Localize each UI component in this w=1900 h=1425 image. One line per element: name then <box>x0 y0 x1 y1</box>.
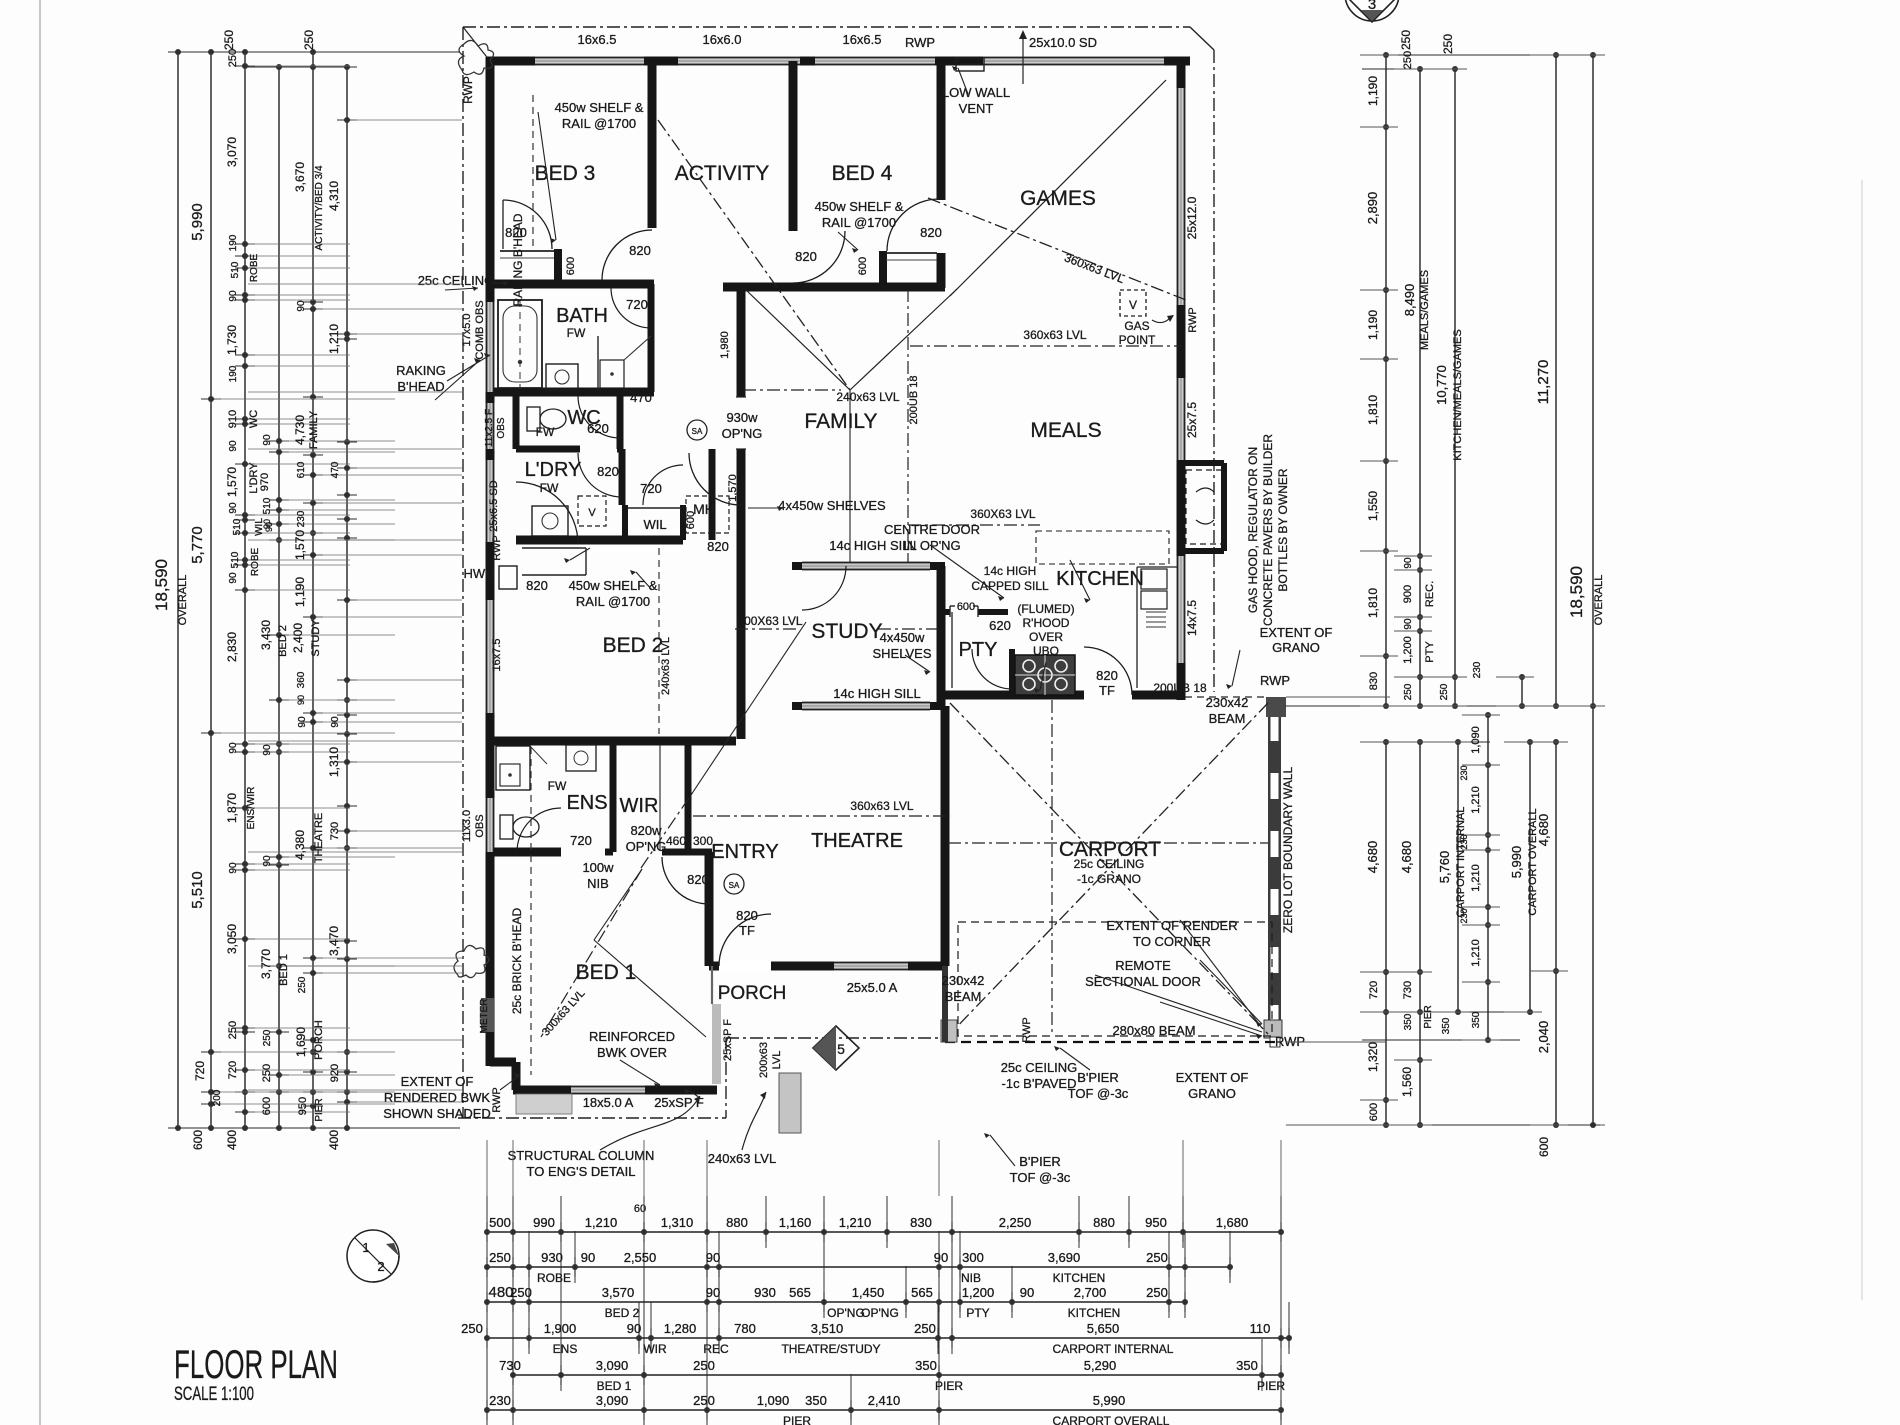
svg-text:1,730: 1,730 <box>225 325 239 355</box>
bed2 robe recess <box>522 547 586 549</box>
svg-text:350: 350 <box>1403 1013 1414 1030</box>
door arc bed2 <box>516 482 578 544</box>
svg-text:230: 230 <box>489 1393 511 1408</box>
svg-text:250: 250 <box>510 1285 532 1300</box>
entry diagonal line <box>693 622 806 792</box>
svg-text:OVERALL: OVERALL <box>1593 575 1605 626</box>
svg-text:GRANO: GRANO <box>1272 640 1320 655</box>
door arc kitchen 820TF <box>1084 647 1132 695</box>
svg-text:3,690: 3,690 <box>1048 1250 1081 1265</box>
door arc bed4 <box>887 199 939 251</box>
svg-text:565: 565 <box>911 1285 933 1300</box>
svg-text:400: 400 <box>327 1130 341 1150</box>
gas point V box <box>1120 290 1146 316</box>
svg-text:350: 350 <box>805 1393 827 1408</box>
wil closet <box>622 505 628 540</box>
svg-text:TOF @-3c: TOF @-3c <box>1010 1170 1071 1185</box>
svg-text:1,160: 1,160 <box>779 1215 812 1230</box>
svg-text:600: 600 <box>565 257 577 275</box>
ens shower <box>496 746 530 790</box>
svg-text:820: 820 <box>1096 668 1118 683</box>
svg-text:3,050: 3,050 <box>225 924 239 954</box>
bed2 dashed rake <box>658 548 660 734</box>
svg-text:90: 90 <box>706 1285 720 1300</box>
porch slab edge <box>726 1037 945 1039</box>
detail marker 5 porch <box>813 1026 859 1070</box>
svg-text:250: 250 <box>302 30 316 50</box>
svg-text:1,310: 1,310 <box>661 1215 694 1230</box>
door arc ldry <box>578 453 622 497</box>
svg-text:STUDY: STUDY <box>811 620 882 643</box>
svg-text:BED 2: BED 2 <box>603 634 664 657</box>
svg-text:METER: METER <box>479 999 490 1034</box>
svg-text:90: 90 <box>297 716 308 728</box>
svg-text:PORCH: PORCH <box>313 1020 325 1060</box>
detail marker 3 top <box>1345 0 1399 21</box>
RWP box bottom right carport <box>1264 1020 1282 1038</box>
svg-text:EXTENT OF: EXTENT OF <box>1176 1070 1249 1085</box>
games diagonal solid <box>950 80 1166 296</box>
eaves corner diagonal top-left <box>463 27 490 61</box>
svg-text:WIR: WIR <box>643 1342 667 1356</box>
hall wall east of wil <box>709 449 716 540</box>
svg-text:90: 90 <box>262 855 273 867</box>
svg-text:25xSP F: 25xSP F <box>654 1095 704 1110</box>
svg-text:HWU: HWU <box>463 566 494 581</box>
svg-text:ZERO LOT BOUNDARY WALL: ZERO LOT BOUNDARY WALL <box>1281 767 1295 934</box>
svg-text:SHOWN SHADED: SHOWN SHADED <box>383 1106 491 1121</box>
svg-text:14x7.5: 14x7.5 <box>1185 600 1199 636</box>
svg-text:CARPORT OVERALL: CARPORT OVERALL <box>1053 1414 1170 1425</box>
svg-text:2,700: 2,700 <box>1074 1285 1107 1300</box>
rendered bwk grey strip <box>516 1094 572 1114</box>
low wall vent box <box>956 58 984 71</box>
svg-text:3: 3 <box>1368 0 1376 13</box>
svg-text:OVERALL: OVERALL <box>177 575 189 626</box>
svg-text:730: 730 <box>1402 981 1414 999</box>
svg-text:TF: TF <box>739 923 755 938</box>
svg-text:PTY: PTY <box>1424 641 1436 663</box>
svg-text:3,090: 3,090 <box>596 1358 629 1373</box>
door arc hall-bed3wall <box>602 230 652 280</box>
ens nib <box>605 849 613 856</box>
svg-text:MEALS/GAMES: MEALS/GAMES <box>1419 270 1431 350</box>
window 16x7.5 bed2 <box>486 600 495 713</box>
svg-text:WIR: WIR <box>620 795 659 817</box>
study top sill window <box>792 562 802 570</box>
svg-text:FW: FW <box>540 481 559 495</box>
svg-text:-1c GRANO: -1c GRANO <box>1077 872 1141 886</box>
svg-text:SECTIONAL DOOR: SECTIONAL DOOR <box>1085 974 1201 989</box>
svg-text:THEATRE/STUDY: THEATRE/STUDY <box>781 1342 880 1356</box>
svg-text:18x5.0 A: 18x5.0 A <box>583 1095 634 1110</box>
svg-text:250: 250 <box>222 30 236 50</box>
svg-text:RAKING: RAKING <box>396 363 446 378</box>
ens sink <box>566 745 596 771</box>
door arc entry <box>662 857 709 904</box>
svg-text:90: 90 <box>262 744 273 756</box>
svg-text:25xSP F: 25xSP F <box>722 1019 734 1061</box>
svg-text:820: 820 <box>597 464 619 479</box>
door arc bed3 entry <box>502 200 504 249</box>
svg-text:RWP: RWP <box>1187 307 1199 332</box>
svg-text:250: 250 <box>227 49 239 67</box>
svg-text:90: 90 <box>627 1321 641 1336</box>
svg-text:1,190: 1,190 <box>293 577 307 607</box>
svg-text:90: 90 <box>228 742 239 754</box>
svg-text:PIER: PIER <box>314 1098 325 1121</box>
wall wir right x688 <box>685 741 692 855</box>
meals top dash-dot 360x63 <box>910 345 1181 347</box>
svg-text:PTY: PTY <box>966 1306 989 1320</box>
svg-text:GAS HOOD, REGULATOR ON: GAS HOOD, REGULATOR ON <box>1246 447 1260 613</box>
svg-text:RWP: RWP <box>1275 1034 1305 1049</box>
svg-text:2,250: 2,250 <box>999 1215 1032 1230</box>
svg-text:TF: TF <box>1099 683 1115 698</box>
svg-text:THEATRE: THEATRE <box>811 830 903 852</box>
svg-text:18,590: 18,590 <box>152 559 171 611</box>
svg-text:25x6.5 SD: 25x6.5 SD <box>488 480 500 531</box>
svg-text:PIER: PIER <box>1257 1379 1285 1393</box>
carport X diagonal 1 <box>950 703 1268 1034</box>
svg-text:1,690: 1,690 <box>294 1027 308 1057</box>
svg-text:1,210: 1,210 <box>585 1215 618 1230</box>
svg-text:470: 470 <box>630 390 652 405</box>
SA circle hall <box>687 420 707 440</box>
shrub squiggle top left <box>458 40 493 74</box>
window 16x6.0 top-2 <box>678 57 800 66</box>
svg-text:BEAM: BEAM <box>945 989 982 1004</box>
window 16x6.5 top-1 <box>535 57 644 66</box>
svg-text:820: 820 <box>795 249 817 264</box>
svg-text:BED 1: BED 1 <box>597 1379 632 1393</box>
svg-text:OP'NG: OP'NG <box>827 1306 865 1320</box>
door arc pty <box>972 649 1012 689</box>
230x42 beam left marker <box>942 966 948 1042</box>
svg-text:450w SHELF &: 450w SHELF & <box>569 578 658 593</box>
svg-text:190: 190 <box>228 234 239 251</box>
bed1 solid diagonals <box>594 940 706 1037</box>
bath vanity <box>546 364 578 390</box>
svg-text:1,190: 1,190 <box>1366 310 1380 340</box>
toilet wc <box>527 407 540 431</box>
svg-text:1,210: 1,210 <box>1470 786 1482 814</box>
svg-text:950: 950 <box>297 1097 309 1115</box>
svg-text:600: 600 <box>1368 1103 1380 1121</box>
svg-text:BWK OVER: BWK OVER <box>597 1045 667 1060</box>
window 18x5.0 A bed1 <box>571 1086 645 1095</box>
svg-text:3,510: 3,510 <box>811 1321 844 1336</box>
svg-text:720: 720 <box>570 833 592 848</box>
svg-text:240x63 LVL: 240x63 LVL <box>836 390 899 404</box>
svg-text:V: V <box>588 507 596 519</box>
svg-text:OVER: OVER <box>1029 630 1063 644</box>
svg-text:25c CEILING: 25c CEILING <box>1001 1060 1078 1075</box>
svg-text:600: 600 <box>857 257 869 275</box>
svg-text:STRUCTURAL COLUMN: STRUCTURAL COLUMN <box>508 1148 655 1163</box>
svg-text:90: 90 <box>581 1250 595 1265</box>
beam 200UB18 vertical <box>907 289 909 562</box>
svg-text:360X63 LVL: 360X63 LVL <box>970 507 1035 521</box>
carport bpier left grey <box>941 1020 957 1042</box>
meals dash-dot 360X63 y525 <box>908 524 1040 526</box>
svg-text:SCALE 1:100: SCALE 1:100 <box>174 1384 254 1405</box>
svg-text:3,430: 3,430 <box>259 620 273 650</box>
svg-text:200: 200 <box>212 1089 223 1106</box>
svg-text:190: 190 <box>228 365 239 382</box>
svg-text:(FLUMED): (FLUMED) <box>1017 602 1074 616</box>
svg-text:730: 730 <box>329 822 341 840</box>
svg-text:600: 600 <box>685 511 697 529</box>
theatre dash-dot 360x63 y816 <box>693 815 948 817</box>
window 25x6.5 SD ldry <box>486 460 495 542</box>
left block comb extension lines <box>215 398 395 400</box>
kitchen bench outline <box>951 612 953 688</box>
svg-text:300X63 LVL: 300X63 LVL <box>737 614 802 628</box>
structural column leader <box>600 1096 700 1150</box>
svg-text:25c BRICK B'HEAD: 25c BRICK B'HEAD <box>510 908 524 1015</box>
svg-text:BATH: BATH <box>556 305 608 327</box>
svg-text:230: 230 <box>1472 661 1483 678</box>
svg-text:90: 90 <box>706 1250 720 1265</box>
svg-text:1,210: 1,210 <box>1470 864 1482 892</box>
bed4 robe stub <box>879 251 887 287</box>
svg-text:CAPPED SILL: CAPPED SILL <box>971 579 1049 593</box>
svg-text:1,210: 1,210 <box>327 324 341 354</box>
wall activity-bed4 <box>789 61 798 231</box>
svg-text:5,990: 5,990 <box>189 203 206 241</box>
svg-text:4,380: 4,380 <box>293 830 307 860</box>
svg-text:4x450w: 4x450w <box>880 630 925 645</box>
eaves outline top-right diagonal <box>1190 27 1214 50</box>
eaves outline top <box>463 26 1190 28</box>
meter box <box>481 998 494 1032</box>
svg-text:REC.: REC. <box>1424 581 1436 607</box>
svg-text:930: 930 <box>541 1250 563 1265</box>
svg-text:OBS: OBS <box>496 417 507 438</box>
svg-text:250: 250 <box>1146 1250 1168 1265</box>
svg-text:L'DRY: L'DRY <box>525 459 582 481</box>
svg-text:4,730: 4,730 <box>293 415 307 445</box>
svg-text:970: 970 <box>259 473 271 491</box>
svg-text:TOF @-3c: TOF @-3c <box>1068 1086 1129 1101</box>
svg-text:4,680: 4,680 <box>1399 841 1414 874</box>
wall left exterior <box>486 57 495 1066</box>
svg-text:250: 250 <box>914 1321 936 1336</box>
wall bed3-activity <box>648 61 657 228</box>
svg-text:BED 3: BED 3 <box>535 162 596 185</box>
svg-text:830: 830 <box>910 1215 932 1230</box>
svg-text:240x63 LVL: 240x63 LVL <box>660 637 672 695</box>
svg-text:4,680: 4,680 <box>1536 814 1551 847</box>
shrub squiggle left meter <box>454 945 489 977</box>
svg-text:820: 820 <box>736 908 758 923</box>
vent arrow 25x10 SD <box>1022 34 1024 84</box>
svg-text:R'HOOD: R'HOOD <box>1023 616 1070 630</box>
svg-text:PIER: PIER <box>935 1379 963 1393</box>
svg-text:V: V <box>1129 298 1137 312</box>
svg-text:ROBE: ROBE <box>250 548 261 577</box>
V box ldry <box>578 496 606 526</box>
svg-text:720: 720 <box>626 297 648 312</box>
svg-text:820: 820 <box>526 578 548 593</box>
svg-text:ENS: ENS <box>566 792 607 814</box>
svg-text:BED 2: BED 2 <box>277 625 289 657</box>
svg-text:90: 90 <box>228 290 239 302</box>
svg-text:720: 720 <box>193 1061 207 1081</box>
svg-text:1,280: 1,280 <box>664 1321 697 1336</box>
kitchen sink <box>1141 569 1167 589</box>
svg-text:REMOTE: REMOTE <box>1115 958 1171 973</box>
svg-text:CONCRETE PAVERS BY BUILDER: CONCRETE PAVERS BY BUILDER <box>1261 434 1275 626</box>
svg-text:OBS: OBS <box>474 814 486 837</box>
svg-text:FAMILY: FAMILY <box>804 410 877 433</box>
svg-text:880: 880 <box>1093 1215 1115 1230</box>
svg-text:250: 250 <box>1146 1285 1168 1300</box>
svg-text:LOW WALL: LOW WALL <box>942 85 1010 100</box>
svg-text:THEATRE: THEATRE <box>313 813 325 864</box>
wall bed3-bath y282 <box>490 280 654 289</box>
wall below bed4 y287 <box>723 283 945 292</box>
svg-text:17x5.0: 17x5.0 <box>461 313 473 346</box>
svg-text:830: 830 <box>1368 672 1380 690</box>
svg-text:RWP: RWP <box>461 76 475 104</box>
svg-text:720: 720 <box>1368 981 1380 999</box>
fridge dashed symbol <box>1186 470 1224 544</box>
wall entry-theatre x709 <box>705 852 714 966</box>
svg-text:RAIL @1700: RAIL @1700 <box>822 215 896 230</box>
svg-text:250: 250 <box>1439 683 1450 700</box>
svg-text:500: 500 <box>489 1215 511 1230</box>
pantry walls <box>941 609 950 615</box>
svg-text:4,310: 4,310 <box>327 181 341 211</box>
svg-text:2,400: 2,400 <box>291 623 305 653</box>
RWP box top right carport <box>1266 697 1286 717</box>
svg-text:730: 730 <box>499 1358 521 1373</box>
svg-text:1,090: 1,090 <box>1470 726 1482 754</box>
svg-text:RWP: RWP <box>1021 1017 1033 1042</box>
svg-text:25x7.5: 25x7.5 <box>1185 402 1199 438</box>
svg-text:250: 250 <box>227 1021 239 1039</box>
svg-text:5,990: 5,990 <box>1093 1393 1126 1408</box>
family inverted-V right leg <box>850 289 957 390</box>
svg-text:1,320: 1,320 <box>1366 1042 1380 1072</box>
svg-text:11x3.0: 11x3.0 <box>461 810 473 842</box>
wall wir bottom segs <box>662 849 712 856</box>
wall study-pty x941 <box>937 566 946 706</box>
svg-text:820w: 820w <box>630 823 662 838</box>
svg-text:25x12.0: 25x12.0 <box>1185 196 1199 239</box>
svg-text:14c HIGH SILL: 14c HIGH SILL <box>833 686 920 701</box>
study dash-dot right part <box>878 628 938 630</box>
svg-text:PTY: PTY <box>959 639 998 661</box>
svg-text:250: 250 <box>261 1064 273 1082</box>
svg-text:990: 990 <box>533 1215 555 1230</box>
svg-text:250: 250 <box>693 1358 715 1373</box>
svg-text:250: 250 <box>489 1250 511 1265</box>
svg-text:EXTENT OF RENDER: EXTENT OF RENDER <box>1106 918 1237 933</box>
wir shelf dashed <box>659 745 661 850</box>
svg-text:FW: FW <box>567 326 586 340</box>
svg-text:90: 90 <box>228 440 239 452</box>
svg-text:PORCH: PORCH <box>718 983 787 1004</box>
svg-text:90: 90 <box>934 1250 948 1265</box>
svg-text:REINFORCED: REINFORCED <box>589 1029 675 1044</box>
svg-text:NIB: NIB <box>961 1271 981 1285</box>
wall wc right <box>617 392 624 449</box>
svg-text:3,470: 3,470 <box>327 926 341 956</box>
svg-text:1: 1 <box>362 1240 369 1255</box>
svg-text:GRANO: GRANO <box>1188 1086 1236 1101</box>
svg-text:RWP: RWP <box>905 35 935 50</box>
svg-text:NIB: NIB <box>587 876 609 891</box>
study bottom sill window <box>792 702 802 710</box>
toilet ens <box>500 815 513 839</box>
svg-text:RAIL @1700: RAIL @1700 <box>562 116 636 131</box>
svg-text:600: 600 <box>261 1097 273 1115</box>
svg-text:GAMES: GAMES <box>1020 187 1096 210</box>
svg-text:1,560: 1,560 <box>1400 1067 1414 1097</box>
svg-text:RWP: RWP <box>1260 673 1290 688</box>
svg-text:16x6.5: 16x6.5 <box>577 32 616 47</box>
door arc bath <box>611 288 651 328</box>
svg-text:5,990: 5,990 <box>1509 846 1524 879</box>
svg-text:16x6.0: 16x6.0 <box>702 32 741 47</box>
carport mid dash-dot horizontal <box>948 842 1268 844</box>
svg-text:25c CEILING: 25c CEILING <box>418 273 495 288</box>
svg-text:200UB 18: 200UB 18 <box>1153 681 1207 695</box>
svg-text:14c HIGH SILL: 14c HIGH SILL <box>829 538 916 553</box>
svg-text:350: 350 <box>1236 1358 1258 1373</box>
bed3 dashed rake <box>532 95 534 250</box>
svg-text:510: 510 <box>232 518 243 535</box>
carport solid render diagonals <box>1095 975 1262 1032</box>
svg-text:14c HIGH: 14c HIGH <box>984 564 1037 578</box>
svg-text:90: 90 <box>228 862 239 874</box>
svg-text:5,650: 5,650 <box>1087 1321 1120 1336</box>
svg-text:450w SHELF &: 450w SHELF & <box>555 100 644 115</box>
window 11x3.0 OBS ens <box>486 798 495 852</box>
svg-text:880: 880 <box>726 1215 748 1230</box>
svg-text:3,770: 3,770 <box>259 949 273 979</box>
svg-text:90: 90 <box>1020 1285 1034 1300</box>
svg-text:-1c B'PAVED: -1c B'PAVED <box>1002 1076 1077 1091</box>
bed1 rake dash-dot diagonal <box>541 869 642 1037</box>
family centreline vertical <box>849 390 851 562</box>
svg-text:950: 950 <box>1145 1215 1167 1230</box>
svg-text:600: 600 <box>957 601 975 613</box>
carport X diagonal 2 <box>950 703 1268 1034</box>
svg-text:900: 900 <box>1402 585 1414 603</box>
svg-text:230: 230 <box>1459 908 1469 923</box>
svg-text:720: 720 <box>227 1061 239 1079</box>
svg-text:360x63 LVL: 360x63 LVL <box>850 799 913 813</box>
right dim block upper <box>1385 55 1387 706</box>
svg-text:250: 250 <box>1403 683 1414 700</box>
svg-text:2,550: 2,550 <box>624 1250 657 1265</box>
svg-text:WC: WC <box>248 410 260 428</box>
svg-text:ACTIVITY: ACTIVITY <box>675 162 770 185</box>
svg-text:SA: SA <box>729 881 740 890</box>
svg-text:STUDY: STUDY <box>310 619 322 657</box>
svg-text:5,290: 5,290 <box>1084 1358 1117 1373</box>
svg-text:1,310: 1,310 <box>327 747 341 777</box>
MH dashed box <box>686 496 729 533</box>
svg-text:1,570: 1,570 <box>293 530 307 560</box>
svg-text:600: 600 <box>1537 1137 1551 1157</box>
window 14x7.5 kitchen <box>1177 556 1186 663</box>
activity-family long diagonal <box>658 120 850 390</box>
